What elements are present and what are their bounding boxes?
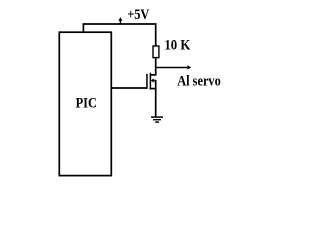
PIC box — [59, 32, 111, 175]
svg-text:10 K: 10 K — [164, 38, 190, 54]
resistor R1 10K (box style) — [153, 46, 159, 58]
ground — [151, 117, 163, 122]
channel bar — [149, 73, 151, 90]
wire: stub from PIC box top up to +5V rail — [82, 24, 84, 32]
drain stub — [150, 74, 156, 76]
wire: resistor bottom to MOSFET drain — [155, 58, 157, 76]
wire: source down to ground — [155, 89, 157, 117]
svg-text:+5V: +5V — [127, 7, 149, 23]
wire: output arrow to servo — [156, 65, 191, 70]
wire: gate wire from PIC to gate — [111, 87, 148, 89]
transistor Q1 (N-MOSFET) — [147, 73, 156, 90]
svg-text:Al servo: Al servo — [177, 74, 221, 90]
svg-text:PIC: PIC — [76, 96, 97, 112]
gate bar — [146, 74, 148, 89]
wire: +5V horizontal rail — [83, 23, 156, 25]
wire: vertical from rail down to resistor — [155, 23, 157, 46]
source stub — [150, 88, 156, 90]
body arrow (points into channel) — [153, 80, 155, 82]
+5V supply arrow — [118, 17, 122, 24]
body/source vertical link — [155, 80, 157, 90]
